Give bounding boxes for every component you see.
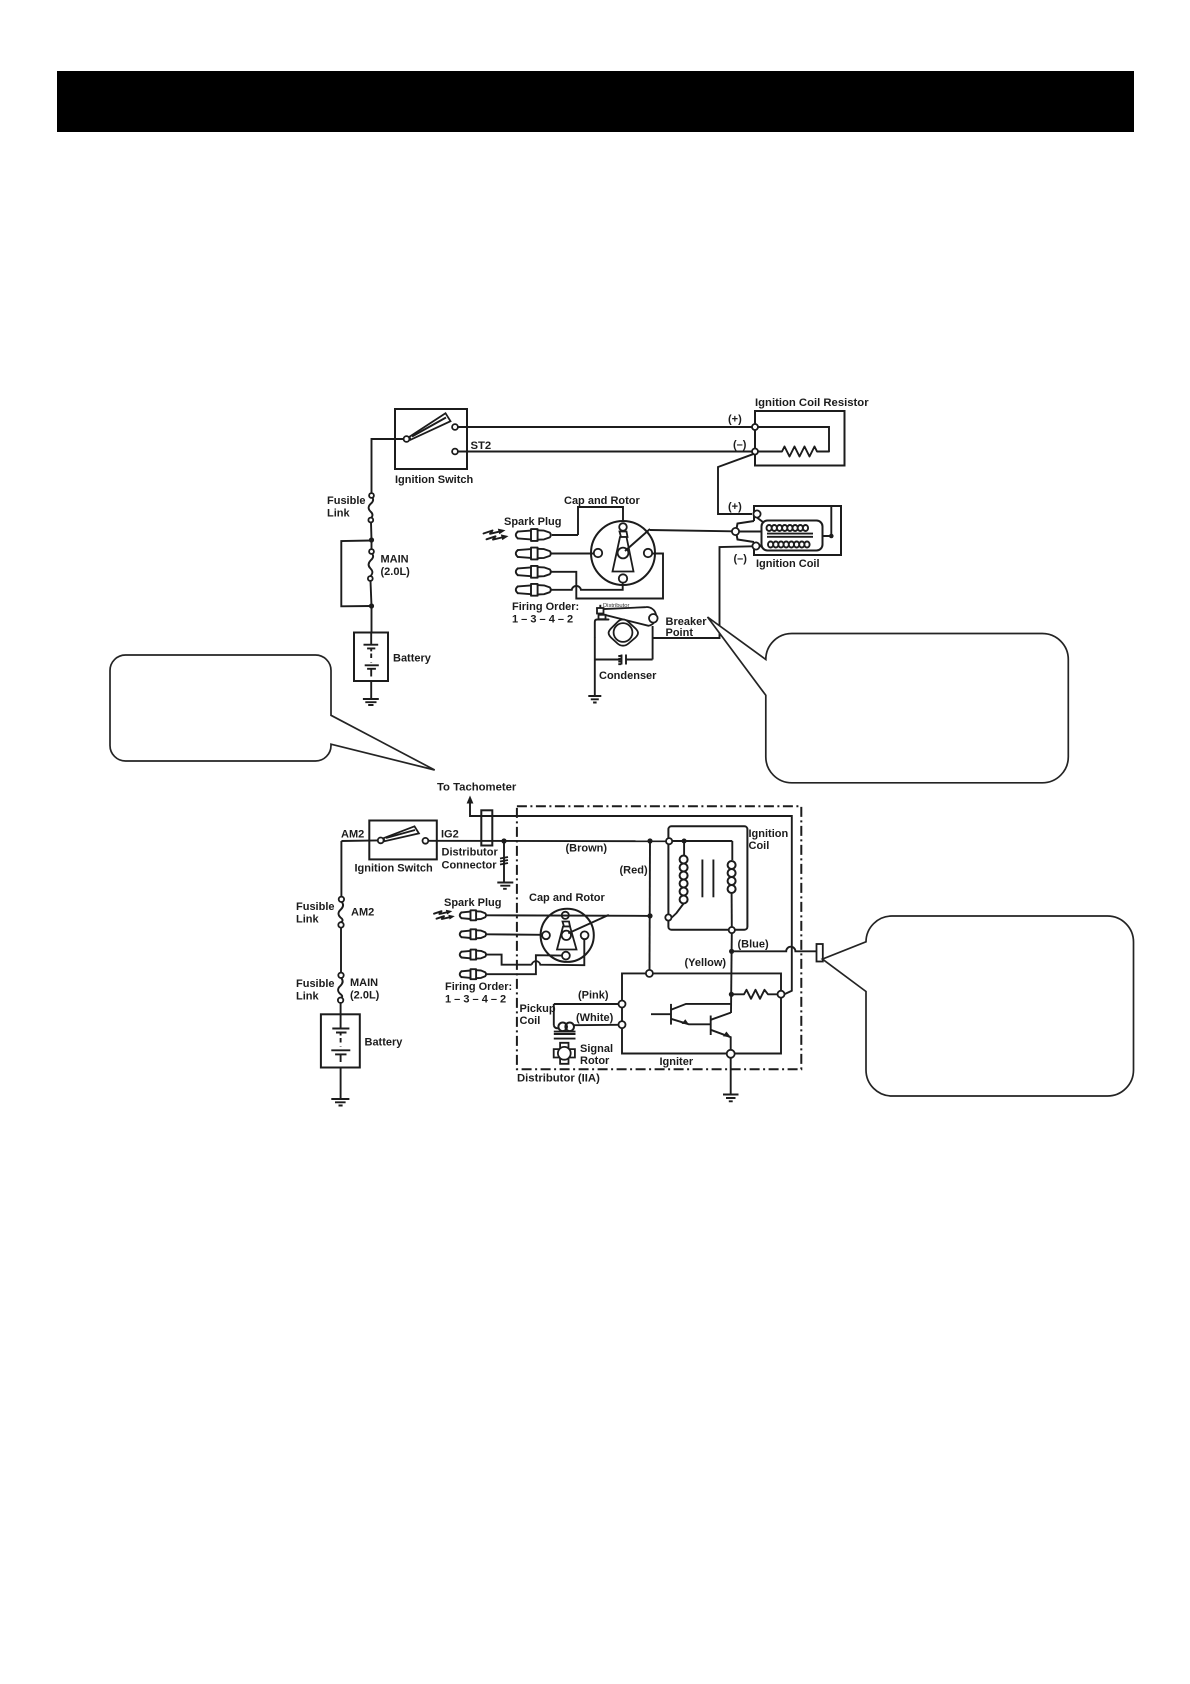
svg-text:AM2: AM2: [351, 907, 374, 919]
wire switch AM to fusible link: [372, 439, 404, 494]
node coil junction (red tap): [647, 838, 652, 843]
header black bar: [57, 71, 1134, 132]
pickup coil core bars: [554, 1031, 576, 1033]
junction dot coil tap: [829, 534, 834, 539]
pickup coil left leg: [553, 1004, 555, 1026]
wire igniter ground: [730, 1058, 732, 1094]
cam lobe: [609, 620, 638, 646]
ignition coil resistor R box: [755, 411, 845, 466]
ground battery: [363, 699, 379, 705]
node resistor tap dot: [729, 992, 734, 997]
coil secondary feed: [731, 841, 733, 860]
spark plug P4: [460, 969, 486, 979]
wire plug2 to cap left: [487, 933, 543, 936]
wire condenser to ground leg: [595, 659, 621, 661]
spark lightning icon: [484, 531, 502, 534]
battery BAT1 box: [354, 633, 388, 682]
svg-text:(–): (–): [733, 439, 747, 451]
svg-text:Coil: Coil: [749, 840, 770, 852]
breaker point contact tick: [599, 605, 601, 608]
svg-text:Link: Link: [296, 991, 319, 1003]
rotor body: [563, 922, 571, 927]
coil primary return: [672, 904, 684, 918]
spark plug P3: [516, 566, 551, 578]
pickup coil wire white: [574, 1024, 619, 1026]
svg-text:MAIN: MAIN: [381, 554, 409, 566]
svg-text:Igniter: Igniter: [660, 1056, 694, 1068]
wire link to junction: [370, 523, 373, 541]
wire to condenser: [627, 659, 653, 661]
battery internal stub: [340, 1014, 342, 1028]
svg-text:Battery: Battery: [365, 1037, 404, 1049]
svg-text:(Red): (Red): [620, 865, 648, 877]
ignition coil core lines: [767, 533, 813, 535]
svg-text:1 – 3 – 4 – 2: 1 – 3 – 4 – 2: [512, 614, 573, 626]
ignition switch terminal ST1 (top right): [452, 424, 458, 430]
wire switch ST2 to resistor (-): [458, 451, 752, 453]
svg-text:Link: Link: [327, 508, 350, 520]
wire AM2 down to fusible link: [340, 841, 342, 897]
wire ground leg: [594, 637, 596, 696]
svg-text:Fusible: Fusible: [327, 495, 366, 507]
fusible link MAIN (2.0L): [369, 553, 374, 577]
spark plug P1: [516, 529, 551, 541]
svg-text:Ignition: Ignition: [749, 828, 789, 840]
wire IG2 to coil: [428, 840, 666, 842]
distributor IIA dash-dot box: [517, 806, 801, 1069]
HT wire coil to cap: [650, 530, 732, 531]
distributor connector: [481, 810, 492, 845]
wire junction A to link: [371, 540, 373, 550]
cap terminal left: [542, 931, 550, 939]
node IG2 junction: [501, 838, 506, 843]
ignition coil terminal (+): [753, 510, 760, 517]
svg-text:(Pink): (Pink): [578, 990, 609, 1002]
fusible link FL3 MAIN: [338, 978, 343, 998]
node junction A: [369, 537, 374, 542]
wire link to junction B: [371, 581, 372, 606]
svg-text:Connector: Connector: [442, 860, 498, 872]
rotor top terminal: [619, 523, 627, 531]
battery cell plates: [332, 1028, 349, 1030]
ignition coil primary winding loops: [767, 525, 809, 531]
fusible link FL1: [369, 497, 374, 519]
igniter terminal pink: [619, 1001, 626, 1008]
svg-text:(+): (+): [728, 501, 742, 513]
distributor cap circle: [541, 909, 594, 962]
rotor pickup diagonal: [625, 529, 650, 551]
spark plug P3: [460, 950, 486, 960]
svg-text:Spark Plug: Spark Plug: [504, 516, 561, 528]
cap terminal left: [594, 549, 602, 557]
transistor Q1 base wire: [651, 1013, 671, 1015]
svg-text:To Tachometer: To Tachometer: [437, 782, 517, 794]
noise filter capacitor: [817, 944, 823, 962]
coil core lines: [701, 860, 703, 898]
battery cell plates: [364, 644, 379, 646]
svg-text:(2.0L): (2.0L): [350, 990, 380, 1002]
condenser C1 plates: [625, 655, 627, 665]
svg-text:(–): (–): [734, 553, 748, 565]
svg-text:Cap and Rotor: Cap and Rotor: [564, 495, 640, 507]
node yellow junction circle: [646, 970, 653, 977]
pickup coil loops: [558, 1023, 567, 1032]
callout bubble right: [822, 916, 1133, 1096]
signal rotor: [554, 1043, 575, 1064]
ground battery: [331, 1099, 349, 1106]
resistor terminal (-): [752, 449, 758, 455]
svg-text:1 – 3 – 4 – 2: 1 – 3 – 4 – 2: [445, 994, 506, 1006]
wire tachometer tap: [470, 802, 792, 994]
breaker point contact block: [597, 608, 604, 614]
transistor Q2 emitter: [711, 1030, 731, 1050]
ignition switch lever: [384, 826, 419, 841]
coil terminal left bottom: [665, 914, 671, 920]
ignition coil HT terminal: [732, 528, 739, 535]
ignition switch terminal AM (left): [404, 436, 410, 442]
bypass bracket wire: [341, 541, 371, 607]
ignition switch SW1 box: [395, 409, 467, 469]
cap terminal bottom: [619, 574, 627, 582]
svg-text:Distributor (IIA): Distributor (IIA): [517, 1073, 600, 1085]
svg-text:Coil: Coil: [520, 1015, 541, 1027]
rotor center circle: [562, 931, 571, 940]
wire link to battery: [340, 1003, 342, 1014]
ignition coil terminal (-): [752, 542, 759, 549]
coil internal top wire: [671, 840, 732, 842]
coil primary winding: [680, 856, 688, 904]
svg-text:Ignition Coil: Ignition Coil: [756, 558, 820, 570]
svg-text:Ignition Switch: Ignition Switch: [395, 474, 473, 486]
resistor R zigzag element: [758, 447, 829, 457]
coil secondary winding: [728, 861, 736, 893]
coil terminal bottom: [729, 927, 735, 933]
wire plug1 to cap bracket: [552, 534, 578, 536]
rotor body: [620, 532, 628, 538]
svg-text:Pickup: Pickup: [520, 1003, 556, 1015]
wire junction B to battery: [371, 606, 373, 633]
wire between links: [340, 928, 342, 973]
ignition switch terminal ST2 (bottom right): [452, 449, 458, 455]
svg-text:Fusible: Fusible: [296, 901, 335, 913]
svg-text:Point: Point: [666, 627, 694, 639]
ignition coil terminal wires: [736, 518, 764, 548]
svg-text:Firing Order:: Firing Order:: [512, 601, 579, 613]
svg-text:Rotor: Rotor: [580, 1055, 610, 1067]
igniter terminal resistor right: [778, 991, 785, 998]
switch terminal AM2: [378, 838, 384, 844]
spark plug P2: [460, 929, 486, 939]
svg-text:Spark Plug: Spark Plug: [444, 897, 501, 909]
wire IG2 ground stub: [503, 841, 505, 882]
svg-text:Ignition Coil Resistor: Ignition Coil Resistor: [755, 397, 869, 409]
wire switch ST1 to resistor (+): [458, 426, 752, 428]
node junction B: [369, 603, 374, 608]
wire AM2 into switch: [341, 839, 377, 842]
transistor Q1 collector: [671, 1004, 730, 1010]
ignition coil left notch: [736, 521, 754, 542]
wire plug2 to cap left terminal: [552, 553, 594, 555]
ignition switch SW2 box: [369, 821, 437, 860]
wire battery to ground: [370, 681, 372, 699]
igniter block outline: [622, 973, 781, 1053]
resistor terminal (+): [752, 424, 758, 430]
transistor Q2 collector: [711, 1013, 731, 1020]
svg-text:Battery: Battery: [393, 653, 432, 665]
svg-text:Firing Order:: Firing Order:: [445, 981, 512, 993]
wire coil to blue dot: [731, 933, 733, 951]
svg-text:Cap and Rotor: Cap and Rotor: [529, 892, 605, 904]
cam inner circle: [614, 623, 633, 642]
igniter terminal emitter/ground: [727, 1050, 735, 1058]
cap terminal bottom: [562, 952, 570, 960]
breaker point arm: [598, 607, 657, 626]
pickup coil wire pink: [554, 1003, 619, 1005]
svg-text:MAIN: MAIN: [350, 977, 378, 989]
svg-text:Link: Link: [296, 914, 319, 926]
svg-text:AM2: AM2: [341, 829, 364, 841]
transistor Q1 bar: [670, 1004, 672, 1025]
svg-text:Fusible: Fusible: [296, 978, 335, 990]
battery BAT2 box: [321, 1014, 360, 1067]
tachometer arrow: [467, 796, 474, 804]
spark plug P1: [460, 910, 486, 920]
callout bubble upper right: [708, 617, 1069, 783]
rotor top terminal: [562, 912, 569, 919]
svg-text:(2.0L): (2.0L): [381, 566, 411, 578]
spark plug P4: [516, 584, 551, 596]
wire collector rail: [730, 951, 733, 1013]
rotor center circle: [618, 548, 629, 559]
breaker point bracket: [595, 620, 609, 638]
wire coil (-) to breaker point: [653, 546, 753, 638]
breaker point ring: [649, 614, 658, 623]
svg-text:(Blue): (Blue): [738, 939, 770, 951]
svg-text:(Yellow): (Yellow): [685, 957, 727, 969]
spark lightning icon: [434, 911, 449, 914]
cap terminal right: [644, 549, 652, 557]
fusible link FL2 AM2: [338, 902, 343, 923]
battery internal stub: [370, 633, 372, 645]
transistor Q2 bar: [710, 1016, 712, 1036]
svg-text:(+): (+): [728, 414, 742, 426]
ignition coil T1 outer box: [754, 506, 841, 555]
resistor R igniter zigzag: [731, 990, 777, 999]
wire plug3 to cap right: [487, 955, 532, 965]
coil primary feed: [683, 841, 685, 856]
cap terminal right: [581, 931, 589, 939]
ignition coil secondary winding loops: [768, 542, 810, 548]
node HT junction dot: [647, 913, 652, 918]
rotor pickup diagonal: [568, 915, 609, 933]
svg-text:Distributor: Distributor: [442, 847, 499, 859]
svg-text:Ignition Switch: Ignition Switch: [355, 863, 433, 875]
wire battery to ground: [340, 1068, 342, 1099]
svg-text:IG2: IG2: [441, 829, 459, 841]
switch terminal IG2: [423, 838, 429, 844]
ignition coil secondary tap wire: [823, 507, 832, 536]
ground IG2 stub: [497, 883, 513, 889]
node blue junction: [729, 949, 734, 954]
coil terminal left top: [666, 838, 672, 844]
svg-text:Condenser: Condenser: [599, 670, 657, 682]
ignition coil inner body: [762, 521, 823, 551]
svg-text:ST2: ST2: [471, 440, 492, 452]
node coil internal dot: [682, 839, 687, 844]
wire plug4 to cap bottom terminal: [552, 583, 623, 590]
wire breaker arm down: [652, 626, 654, 660]
wire resistor (-) down to coil (+): [718, 454, 754, 514]
svg-text:(White): (White): [576, 1012, 614, 1024]
wire red vertical: [649, 841, 652, 970]
wire plug4 to cap bottom: [487, 955, 562, 974]
igniter terminal white: [619, 1021, 626, 1028]
ground igniter: [723, 1095, 739, 1102]
wire plug1 HT: [487, 914, 650, 917]
ground condenser: [588, 696, 601, 703]
spark plug P2: [516, 548, 551, 560]
ignition switch lever: [410, 413, 451, 440]
transistor Q1 emitter: [671, 1019, 711, 1025]
cap label pointer bracket: [578, 507, 623, 535]
resistor internal wire: [758, 427, 829, 452]
distributor cap circle: [591, 521, 655, 585]
wire blue to noise filter: [732, 947, 817, 952]
ignition coil T2 box: [668, 826, 747, 929]
svg-text:(Brown): (Brown): [566, 843, 608, 855]
coil secondary return: [731, 893, 733, 927]
svg-text:Signal: Signal: [580, 1043, 613, 1055]
wire plug3 to cap right terminal: [552, 554, 664, 599]
callout bubble left: [110, 655, 435, 770]
